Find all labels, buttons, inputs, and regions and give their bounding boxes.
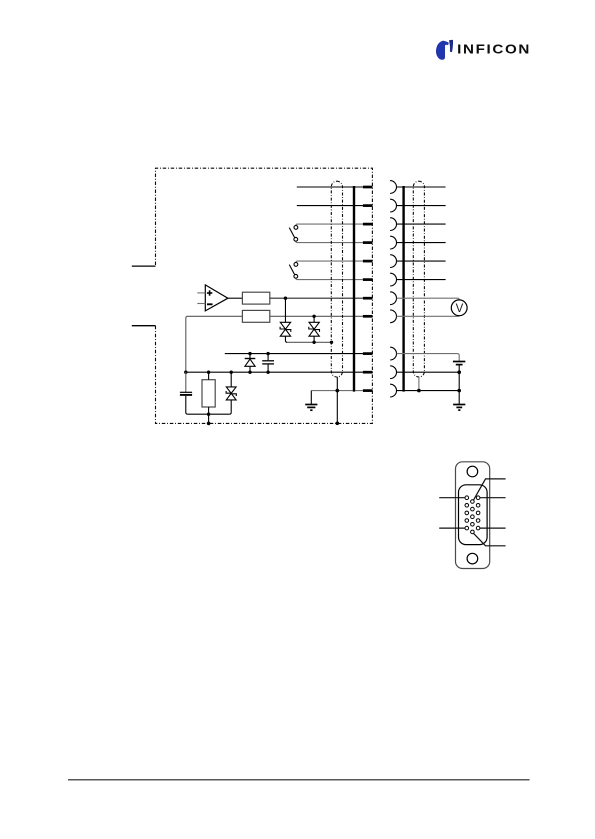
resistor R1 — [242, 292, 269, 304]
wire from R2 left to node B — [186, 316, 243, 372]
wire 3 — [296, 224, 363, 225]
diode D1 — [245, 354, 256, 373]
node dot C1 bottom — [266, 371, 269, 374]
wire 1 — [297, 186, 363, 188]
TVS suppressor Z1 — [280, 298, 291, 342]
svg-text:V: V — [456, 303, 464, 315]
op-amp plus sign — [207, 290, 212, 295]
footer rule — [68, 779, 530, 781]
op-amp + input stub — [197, 292, 205, 294]
wire 4 — [296, 241, 363, 242]
node dot R3 top — [207, 371, 210, 374]
switch S2 — [289, 263, 298, 279]
node dot chassis left — [207, 422, 211, 426]
ground (earth) right — [453, 405, 465, 411]
node dot Z1 top — [284, 297, 287, 300]
node dot r10-C3 — [457, 370, 461, 374]
cable shield capsule right — [413, 181, 424, 377]
D-sub screw hole top — [467, 466, 478, 477]
wire 11 (shield/ground rail) — [311, 390, 363, 392]
wire 5 — [296, 261, 363, 262]
D-sub shell — [459, 485, 488, 545]
op-amp minus sign — [207, 303, 213, 305]
callout line pin top-middle — [474, 479, 506, 500]
wire r7 to voltmeter — [397, 298, 460, 300]
wire 6 — [296, 278, 363, 279]
schematic group — [132, 168, 467, 425]
wire 8 from R2 to connector — [270, 315, 363, 317]
ground (signal) left — [305, 391, 317, 411]
connector X1 body bar — [353, 186, 355, 392]
op-amp - input stub — [197, 303, 205, 305]
wire r5 — [397, 260, 446, 262]
TVS suppressor Z3 — [226, 372, 236, 414]
wire shield right stem — [418, 377, 420, 391]
external stub line upper — [132, 265, 156, 267]
capacitor C3 — [453, 362, 465, 405]
callout line lower row left — [439, 527, 465, 529]
wire r3 — [397, 223, 446, 225]
connector X2 body bar — [402, 186, 404, 392]
wire r2 — [397, 205, 446, 207]
node dot D1 top — [248, 352, 251, 355]
wire bottom rail — [188, 413, 230, 415]
enclosure dash-dot box — [156, 168, 373, 423]
node dot Z2 bottom — [312, 341, 315, 344]
node dot Z2 top — [312, 315, 315, 318]
external stub line lower — [132, 325, 156, 327]
wire rail to chassis — [208, 414, 210, 423]
wire r11 — [397, 390, 460, 392]
node dot shield-rail — [336, 389, 340, 393]
callout line upper row left — [439, 497, 465, 499]
node dot shield-chassis — [336, 422, 340, 426]
node dot r11 — [457, 389, 461, 393]
D-sub screw hole bottom — [467, 553, 478, 564]
switch S1 — [289, 226, 298, 242]
wire 9 (node A rail) — [225, 353, 363, 355]
wire 10 (node B rail) — [186, 371, 363, 373]
wire 2 — [297, 205, 363, 207]
D-sub connector outline — [439, 462, 505, 569]
wire r6 — [397, 279, 446, 281]
node dot D1 bottom — [248, 371, 251, 374]
wire shield left stem — [336, 377, 338, 423]
TVS suppressor Z2 — [309, 316, 320, 342]
op-amp U1 — [205, 285, 228, 311]
callout line pin bottom-middle — [474, 533, 506, 546]
node dot shield right — [417, 389, 421, 393]
callout line lower row right — [480, 527, 506, 529]
wire r10 — [397, 371, 460, 373]
D-sub pins row 2 — [471, 500, 475, 534]
resistor R2 — [242, 310, 269, 322]
wire R3 top stem — [208, 372, 210, 380]
callout line upper row right — [480, 497, 506, 499]
node dot shield tie — [330, 341, 333, 344]
connector X1 pin stubs — [363, 186, 373, 392]
capacitor C2 — [180, 372, 192, 414]
wire r1 — [397, 186, 446, 188]
capacitor C1 — [262, 354, 274, 373]
cable shield capsule left — [331, 181, 342, 377]
wire TVS bottoms to shield — [287, 341, 331, 343]
wire 7 from R1 to connector — [270, 297, 363, 299]
D-sub pins row 1 — [465, 496, 469, 530]
wire R3 bottom stem — [208, 407, 210, 414]
node dot rail — [207, 413, 210, 416]
connector X2 socket arcs — [390, 181, 396, 397]
node dot C1 top — [266, 352, 269, 355]
voltmeter V — [451, 300, 467, 316]
wire r4 — [397, 242, 446, 244]
wire op-amp output — [228, 297, 243, 299]
wire r9 to capacitor C3 — [397, 354, 460, 361]
node dot Z3 top — [230, 371, 233, 374]
D-sub pins row 3 — [476, 496, 480, 530]
node dot B left — [184, 371, 187, 374]
INFICON logo mark — [436, 40, 453, 60]
resistor R3 — [202, 380, 215, 407]
svg-text:INFICON: INFICON — [457, 42, 531, 57]
wire r8 to voltmeter — [397, 315, 460, 318]
